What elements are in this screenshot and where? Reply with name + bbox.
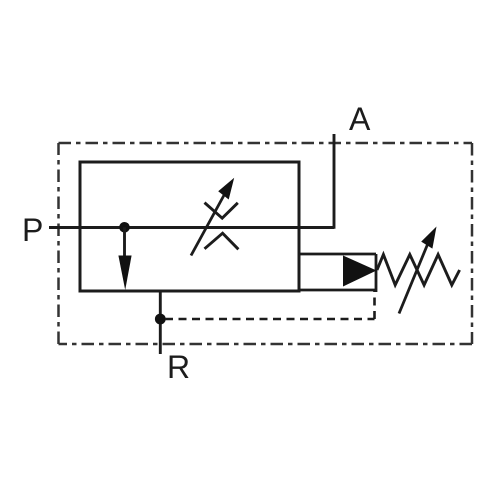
node J2 (drain node dot) (155, 314, 166, 325)
wire: P supply line (P port to node A line) (49, 226, 334, 229)
variable throttle V1: upper chevron (205, 203, 238, 219)
svg-text:R: R (167, 349, 190, 385)
main valve body rectangle (80, 162, 299, 291)
throttle adjustment arrow head (218, 178, 234, 200)
spring adjustment arrow head (421, 227, 436, 249)
pilot stage box (right edge) (375, 254, 378, 292)
pilot line (dashed, horizontal from node J2) (165, 318, 375, 321)
flow direction arrow (downward filled triangle) (118, 256, 131, 291)
pilot line (dashed, vertical up to pilot box) (373, 290, 376, 319)
variable throttle V1: lower chevron (205, 233, 239, 249)
node J1 (junction dot on P line) (119, 222, 130, 233)
wire: A line vertical (333, 134, 336, 229)
spring S1 (zigzag) (377, 255, 460, 286)
pilot stage box (top edge) (299, 253, 376, 256)
wire: branch down from node J1 (123, 227, 126, 258)
pilot poppet (filled right-pointing triangle) (343, 256, 377, 287)
throttle adjustment arrow shaft (191, 187, 229, 256)
enclosure E1 (dash-dot valve envelope) (59, 143, 473, 344)
svg-text:A: A (349, 101, 371, 137)
svg-text:P: P (22, 212, 43, 248)
spring adjustment arrow shaft (399, 236, 431, 314)
pilot stage box (bottom edge, extends body bottom) (299, 289, 376, 292)
wire: R drain line vertical (159, 291, 162, 354)
